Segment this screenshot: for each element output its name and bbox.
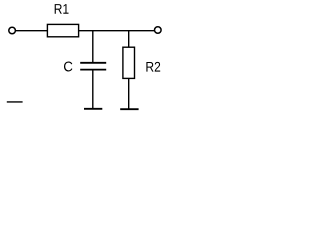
label R2 bbox=[146, 62, 160, 72]
wire from left terminal to R1 bbox=[16, 30, 47, 32]
capacitor C bbox=[80, 63, 106, 70]
terminal node right bbox=[155, 27, 162, 34]
dash mark bottom left bbox=[7, 101, 23, 103]
wire from capacitor C to ground bbox=[92, 70, 94, 108]
label R1 bbox=[55, 4, 69, 14]
label C bbox=[64, 62, 72, 72]
wire from R1 to right terminal bbox=[79, 30, 154, 32]
resistor R1 bbox=[47, 24, 78, 36]
wire junction down to capacitor C bbox=[92, 31, 94, 63]
wire junction down to R2 bbox=[128, 31, 130, 47]
ground under capacitor C bbox=[84, 108, 102, 110]
wire from R2 to ground bbox=[128, 79, 130, 109]
ground under R2 bbox=[120, 108, 138, 110]
resistor R2 bbox=[123, 47, 135, 78]
terminal node left bbox=[9, 27, 16, 34]
